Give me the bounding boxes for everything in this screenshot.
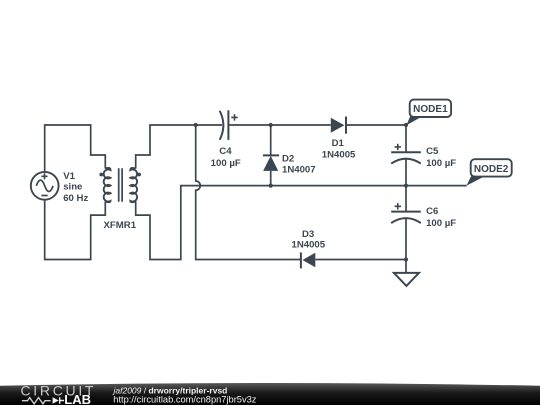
wire D3 to bottom junction	[315, 259, 406, 261]
CircuitLab logo	[21, 383, 97, 405]
wire D2 anode down to rail	[270, 171, 272, 186]
ground	[394, 273, 419, 286]
label D1 1N4005	[322, 138, 356, 161]
junction top rail at hop wire	[194, 123, 198, 127]
svg-text:NODE1: NODE1	[413, 104, 448, 115]
svg-text:D3: D3	[302, 229, 314, 240]
junction NODE1	[404, 123, 408, 127]
label D3 1N4005	[291, 229, 325, 251]
svg-text:100 µF: 100 µF	[426, 158, 456, 169]
junction bottom at ground	[404, 257, 408, 261]
node NODE1 flag	[406, 100, 451, 126]
svg-text:100 µF: 100 µF	[426, 218, 456, 229]
svg-text:D1: D1	[332, 138, 345, 149]
wire D2 cathode up to top rail	[270, 125, 272, 155]
wire top junction down to D3 (with hop over NODE2 rail)	[196, 125, 301, 260]
junction rail at D2 anode	[269, 184, 273, 188]
svg-text:60 Hz: 60 Hz	[63, 193, 88, 204]
capacitor C5	[391, 144, 421, 164]
wire C4 to D1	[228, 124, 330, 126]
transformer XFMR1 primary winding	[104, 168, 111, 202]
svg-text:1N4005: 1N4005	[291, 240, 325, 251]
label D2 1N4007	[282, 153, 316, 175]
wire secondary top (XFMR1 secondary top to C4)	[136, 125, 222, 169]
svg-text:V1: V1	[63, 171, 75, 182]
wire primary bottom (XFMR1 primary bottom to V1 minus)	[45, 200, 106, 259]
node NODE2 flag	[466, 159, 511, 186]
svg-text:LAB: LAB	[64, 392, 91, 405]
wire NODE1 junction to C5	[405, 125, 407, 152]
wire primary top (V1 plus to XFMR1 primary top)	[45, 125, 106, 171]
svg-text:D2: D2	[282, 153, 294, 164]
svg-text:100 µF: 100 µF	[211, 158, 241, 169]
label V1 sine 60 Hz	[63, 171, 88, 204]
label C6 100 uF	[426, 206, 456, 229]
junction top rail at D2	[269, 123, 273, 127]
diode D2	[263, 155, 279, 171]
junction NODE2 rail at C5/C6	[404, 184, 408, 188]
svg-text:http://circuitlab.com/cn8pn7jb: http://circuitlab.com/cn8pn7jbr5v3z	[113, 394, 256, 404]
wire D1 to NODE1 junction	[346, 124, 406, 126]
transformer secondary winding	[130, 168, 137, 202]
diode D3	[301, 252, 315, 268]
wire bottom junction to ground	[405, 260, 407, 274]
capacitor C4	[220, 110, 238, 140]
label C4 100 uF	[211, 146, 241, 169]
capacitor C6	[391, 203, 421, 223]
wire C6 to bottom junction	[405, 219, 407, 260]
svg-text:NODE2: NODE2	[474, 164, 509, 175]
footer bar	[0, 383, 540, 405]
wire mid junction to C6	[405, 186, 407, 212]
svg-text:sine: sine	[63, 182, 82, 193]
wire secondary bottom to NODE2 rail	[136, 186, 467, 260]
svg-text:XFMR1: XFMR1	[104, 220, 137, 231]
diode D1	[331, 117, 346, 134]
voltage source V1	[31, 172, 59, 200]
svg-text:C6: C6	[426, 206, 438, 217]
wire C5 to mid junction	[405, 159, 407, 185]
svg-text:1N4007: 1N4007	[282, 164, 316, 175]
phase dot primary	[99, 173, 103, 177]
label C5 100 uF	[426, 146, 456, 169]
phase dot secondary	[137, 173, 141, 177]
transformer core	[119, 168, 122, 201]
svg-text:C4: C4	[219, 146, 232, 157]
svg-text:C5: C5	[426, 146, 439, 157]
svg-text:1N4005: 1N4005	[322, 150, 356, 161]
